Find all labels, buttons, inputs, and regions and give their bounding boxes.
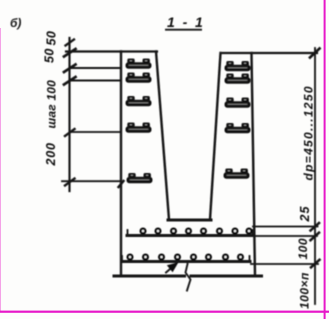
tick left chain y68: [64, 65, 76, 73]
svg-text:шаг 100: шаг 100: [45, 80, 59, 129]
rebar row2 right end tick: [249, 256, 251, 262]
rebar row1 bar in slab: [127, 234, 253, 237]
node row2 circles: [128, 255, 243, 260]
wire right wall inner sloped face: [210, 53, 221, 220]
tick left chain y80: [64, 77, 76, 85]
wire row1 extension to right dim line: [253, 235, 317, 237]
rebar R5 left wall pair 5: [127, 174, 152, 183]
svg-text:б): б): [10, 16, 21, 30]
wire slab bottom edge right part: [191, 275, 262, 278]
rebar R1 left wall pair 1: [126, 59, 151, 68]
wire extension at y183: [62, 180, 121, 182]
title underline: [166, 29, 201, 31]
svg-text:50: 50: [43, 48, 57, 63]
tick right chain top: [310, 49, 320, 58]
rebar R4 left wall pair 4: [126, 123, 151, 132]
rebar row1 left end tick: [127, 230, 129, 236]
wire extension at y128: [70, 131, 122, 133]
wire left wall inner sloped face: [156, 52, 169, 220]
wire extension at y80.5: [70, 80, 122, 82]
wire extension channel bottom level: [253, 226, 318, 228]
rebar R7 right wall pair 2: [225, 74, 250, 83]
border magenta horizontal line: [0, 311, 329, 313]
dimension right chain line: [314, 48, 316, 304]
svg-text:dр=450...1250: dр=450...1250: [302, 85, 316, 180]
tick left chain top: [66, 40, 75, 46]
wire channel flat bottom: [168, 219, 211, 222]
tick left chain y52: [64, 49, 76, 57]
wire left wall top edge with extension to dim line: [66, 50, 157, 52]
rebar row2 bar in slab: [122, 260, 251, 263]
svg-text:25: 25: [298, 206, 312, 223]
wire extension at y68.5: [70, 67, 122, 69]
rebar R6 right wall pair 1: [225, 62, 250, 71]
dimension left chain line: [68, 38, 70, 191]
leader arrow to row2: [166, 262, 179, 272]
wire right wall top edge with extension to dim line: [221, 52, 317, 54]
rebar R10 right wall pair 5: [224, 169, 249, 178]
tick right chain y226: [311, 223, 320, 231]
wire row2 extension to right dim line: [251, 263, 318, 265]
rebar R9 right wall pair 4: [225, 124, 250, 133]
rebar R8 right wall pair 3: [225, 98, 250, 107]
rebar row1 right end tick: [252, 230, 254, 236]
border magenta vertical line: [324, 0, 326, 319]
tick left chain y183: [65, 179, 75, 186]
rebar R3 left wall pair 3: [126, 97, 151, 106]
svg-text:100: 100: [296, 238, 310, 260]
rebar row2 left end tick: [121, 256, 123, 262]
svg-text:50: 50: [45, 31, 59, 46]
rebar R2 left wall pair 2: [126, 73, 151, 82]
svg-text:100×п: 100×п: [298, 272, 312, 309]
wire slab bottom edge left part: [114, 275, 185, 278]
node row1 circles: [141, 229, 252, 234]
wire left wall outer face: [120, 52, 122, 277]
tick right chain y262: [311, 260, 320, 268]
wire right wall outer face: [252, 53, 256, 276]
svg-text:1 - 1: 1 - 1: [167, 14, 205, 30]
tick right chain y237: [311, 233, 320, 241]
break mark zigzag: [186, 264, 191, 291]
tick blob on wall at y185: [119, 181, 124, 187]
svg-text:200: 200: [44, 142, 58, 166]
tick left chain y128: [65, 129, 75, 136]
border faint magenta left edge line: [0, 28, 1, 312]
